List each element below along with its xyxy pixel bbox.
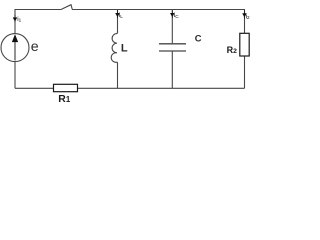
current arrow iC (capacitor branch, pointing down): [171, 11, 174, 19]
EMF source arrow (points up): [13, 35, 18, 60]
wire top-left horizontal segment: [15, 9, 61, 11]
wire left vertical (source branch): [14, 9, 16, 88]
svg-text:iC: iC: [174, 12, 179, 19]
svg-text:iL: iL: [119, 12, 123, 19]
right branch vertical wire: [244, 9, 246, 88]
resistor R1 (box on bottom wire): [54, 84, 78, 91]
resistor R2 (box on right branch): [240, 33, 249, 56]
EMF source circle e: [1, 34, 29, 62]
svg-text:R1: R1: [58, 94, 71, 105]
svg-text:R2: R2: [227, 45, 238, 55]
inductor branch wire: [117, 10, 119, 89]
svg-text:i1: i1: [17, 16, 21, 23]
svg-text:C: C: [195, 32, 202, 43]
current arrow i1 (left branch, pointing down): [13, 15, 16, 23]
current arrow iL (inductor branch, pointing down): [116, 11, 119, 19]
wire top-right horizontal segment: [72, 9, 245, 11]
svg-text:e: e: [31, 39, 39, 55]
inductor L coil: [111, 31, 117, 65]
current arrow i2 (right branch, pointing down): [243, 11, 246, 19]
switch S (blade between top-left and top-right wire): [61, 5, 72, 10]
svg-text:i2: i2: [246, 13, 250, 20]
svg-text:L: L: [121, 43, 128, 55]
capacitor C plates: [159, 44, 186, 51]
capacitor branch wire: [171, 10, 173, 89]
wire bottom horizontal: [15, 87, 245, 89]
